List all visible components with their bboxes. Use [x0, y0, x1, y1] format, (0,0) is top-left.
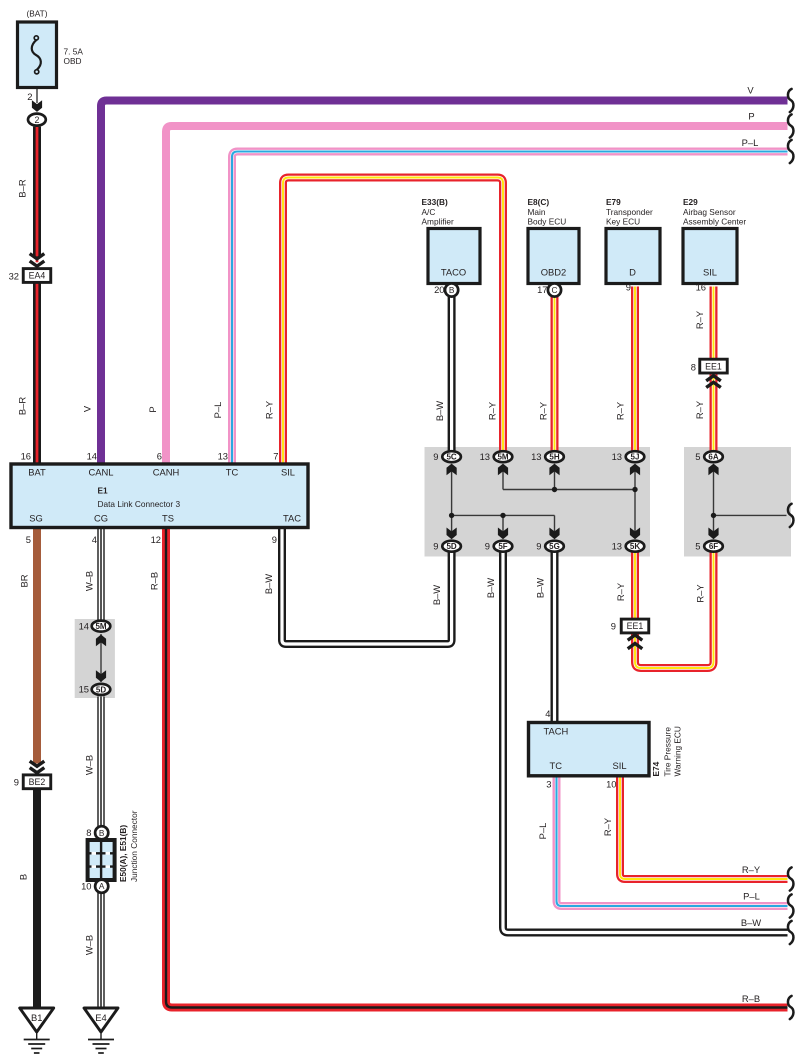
- svg-text:B: B: [449, 285, 455, 295]
- svg-text:R–B: R–B: [149, 572, 160, 590]
- junction internal wire 5J-5K: [634, 466, 636, 538]
- svg-text:EE1: EE1: [627, 621, 644, 631]
- arrow into 5M pair: [96, 635, 106, 647]
- svg-text:4: 4: [92, 534, 97, 545]
- oval 5H: [545, 451, 564, 462]
- svg-text:4: 4: [545, 708, 550, 719]
- wire P-L TC pin13 to right edge: [232, 152, 788, 465]
- svg-text:E4: E4: [95, 1012, 106, 1023]
- wire W-B 5D pair to junction connector: [97, 697, 104, 841]
- arrow into 5K: [630, 528, 640, 540]
- arrow into 5D pair: [96, 670, 106, 682]
- svg-text:V: V: [82, 405, 93, 412]
- svg-text:14: 14: [79, 621, 89, 632]
- svg-text:(BAT): (BAT): [26, 9, 47, 19]
- svg-text:R–B: R–B: [742, 993, 760, 1004]
- arrow double into EE1 lower: [628, 635, 643, 640]
- svg-text:7: 7: [273, 451, 278, 462]
- svg-text:8: 8: [691, 362, 696, 373]
- svg-text:P: P: [748, 111, 754, 122]
- svg-text:B1: B1: [31, 1012, 42, 1023]
- svg-text:A: A: [99, 881, 105, 891]
- ECU E79 Transponder Key ECU: [606, 197, 660, 284]
- svg-text:2: 2: [34, 115, 39, 125]
- arrow into 6A: [708, 464, 718, 476]
- svg-text:7. 5A: 7. 5A: [64, 47, 84, 57]
- oval 6F: [704, 541, 723, 552]
- svg-text:EA4: EA4: [29, 271, 46, 281]
- svg-text:Main: Main: [528, 207, 546, 217]
- svg-text:9: 9: [14, 777, 19, 788]
- wire P (pink) CANH pin6 to right edge: [166, 126, 788, 464]
- E8 pin C circle: [548, 283, 561, 296]
- wire B-W 5G to E74 pin4: [551, 546, 559, 723]
- svg-text:W–B: W–B: [84, 571, 95, 591]
- svg-text:5H: 5H: [549, 453, 559, 462]
- wire R-Y E74 SIL pin10 to right edge: [620, 776, 788, 879]
- svg-text:9: 9: [433, 541, 438, 552]
- svg-text:R–Y: R–Y: [694, 400, 705, 419]
- svg-text:32: 32: [9, 271, 19, 282]
- wire BR SG pin5 to BE2: [33, 528, 41, 764]
- svg-text:P–L: P–L: [742, 137, 759, 148]
- svg-text:CG: CG: [94, 513, 108, 524]
- break symbol P-L bottom: [788, 894, 793, 917]
- wire V (purple) CANL pin14 to right edge: [101, 101, 788, 465]
- junction internal wire 5C-5D: [451, 466, 453, 538]
- svg-text:3: 3: [546, 779, 551, 790]
- break symbol P-L top: [788, 140, 793, 163]
- svg-text:B–W: B–W: [535, 578, 546, 598]
- svg-text:13: 13: [218, 451, 228, 462]
- svg-text:13: 13: [531, 451, 541, 462]
- svg-text:9: 9: [433, 451, 438, 462]
- svg-text:R–Y: R–Y: [615, 401, 626, 420]
- wire B-W 5F to right edge: [503, 546, 788, 933]
- wire R-Y E79 pin9 to 5J: [631, 287, 639, 458]
- svg-text:EE1: EE1: [705, 361, 722, 371]
- arrow double into EA4: [30, 254, 45, 259]
- wire R-Y 5K to EE1: [631, 546, 639, 620]
- svg-text:R–Y: R–Y: [264, 400, 275, 419]
- junction connector pin A circle: [95, 880, 108, 893]
- connector EA4: [23, 269, 51, 283]
- svg-text:C: C: [552, 285, 558, 295]
- svg-text:B–W: B–W: [485, 578, 496, 598]
- svg-text:B–W: B–W: [741, 917, 761, 928]
- svg-text:Warning ECU: Warning ECU: [673, 726, 683, 776]
- svg-text:5D: 5D: [446, 542, 456, 551]
- svg-text:B: B: [18, 874, 29, 880]
- arrow into 5J: [630, 464, 640, 476]
- svg-text:R–Y: R–Y: [695, 584, 706, 603]
- wire B-R fuse to connector 2: [36, 88, 38, 104]
- ECU E1 Data Link Connector 3: [11, 464, 308, 528]
- wire W-B CG pin4 to 5M pair: [97, 528, 104, 621]
- node lower bus at 5F: [500, 513, 505, 518]
- svg-text:Body ECU: Body ECU: [528, 217, 567, 227]
- svg-text:SG: SG: [29, 513, 43, 524]
- svg-text:TACO: TACO: [441, 267, 466, 278]
- wire B-R EA4 to E1 BAT pin16: [33, 282, 41, 464]
- oval 5G: [545, 541, 564, 552]
- junction connector panel (5M/5D pair): [75, 619, 115, 698]
- oval 5F: [494, 541, 513, 552]
- oval 5M: [494, 451, 513, 462]
- svg-text:9: 9: [626, 282, 631, 293]
- svg-text:D: D: [629, 267, 636, 278]
- junction connector panel (5C-5K block): [425, 447, 651, 557]
- svg-text:10: 10: [81, 881, 91, 892]
- junction internal wire upper bus 5M-5H-5J: [502, 466, 504, 490]
- wire R-B TS pin12 to right edge: [166, 528, 788, 1008]
- arrow into 5G: [549, 528, 559, 540]
- svg-text:B–W: B–W: [434, 401, 445, 421]
- svg-text:SIL: SIL: [281, 467, 295, 478]
- connector EE1 lower: [621, 619, 649, 633]
- svg-text:6F: 6F: [709, 542, 718, 551]
- svg-text:5: 5: [695, 451, 700, 462]
- arrow into 5D: [447, 528, 457, 540]
- svg-text:5G: 5G: [549, 542, 560, 551]
- svg-text:A/C: A/C: [422, 207, 436, 217]
- junction internal wire 6A-6F: [713, 466, 715, 538]
- svg-text:SIL: SIL: [613, 760, 627, 771]
- junction internal wire 5M-5D pair: [100, 634, 102, 682]
- svg-text:TACH: TACH: [544, 726, 569, 737]
- svg-text:OBD2: OBD2: [541, 267, 567, 278]
- ECU E33(B) A/C Amplifier: [422, 197, 481, 284]
- break symbol P: [788, 114, 793, 137]
- oval 6A: [704, 451, 723, 462]
- arrow into 5C: [447, 464, 457, 476]
- svg-text:CANL: CANL: [88, 467, 113, 478]
- svg-text:Assembly Center: Assembly Center: [683, 217, 746, 227]
- svg-text:B–R: B–R: [17, 397, 28, 415]
- break symbol R-Y: [788, 867, 793, 890]
- svg-text:E29: E29: [683, 197, 698, 207]
- junction internal wire lower bus 5D-5F-5G: [452, 514, 555, 516]
- svg-text:5J: 5J: [631, 453, 640, 462]
- junction connector pin B circle: [95, 826, 108, 839]
- svg-text:12: 12: [151, 534, 161, 545]
- fuse 7.5A OBD: [18, 22, 57, 88]
- node upper bus at 5H: [552, 487, 557, 492]
- oval 5J: [626, 451, 645, 462]
- svg-text:5: 5: [26, 534, 31, 545]
- arrow into 5M: [498, 464, 508, 476]
- arrow into 5F: [498, 528, 508, 540]
- wire R-Y EE1 to 6F: [635, 546, 714, 668]
- connector EE1 upper: [700, 359, 728, 373]
- svg-text:E74: E74: [651, 761, 661, 776]
- arrow into 5H: [549, 464, 559, 476]
- wire B-W TAC pin9 to 5D: [282, 528, 452, 645]
- break symbol V: [788, 89, 793, 112]
- svg-text:E33(B): E33(B): [422, 197, 449, 207]
- arrow double into EE1 upper: [706, 376, 721, 381]
- svg-text:R–Y: R–Y: [487, 401, 498, 420]
- node upper bus at 5J: [632, 487, 637, 492]
- connector 2 oval: [28, 114, 46, 126]
- svg-text:BR: BR: [19, 574, 30, 587]
- svg-text:E1: E1: [98, 486, 109, 496]
- svg-text:CANH: CANH: [153, 467, 180, 478]
- svg-text:6A: 6A: [708, 453, 718, 462]
- svg-text:5: 5: [695, 541, 700, 552]
- svg-text:5D: 5D: [96, 685, 106, 694]
- ECU E8(C) Main Body ECU: [528, 197, 580, 284]
- svg-text:P–L: P–L: [537, 823, 548, 840]
- svg-text:R–Y: R–Y: [742, 864, 761, 875]
- svg-text:17: 17: [537, 284, 547, 295]
- ground B1: [20, 1008, 54, 1053]
- svg-text:13: 13: [612, 451, 622, 462]
- svg-text:9: 9: [485, 541, 490, 552]
- svg-text:Airbag Sensor: Airbag Sensor: [683, 207, 736, 217]
- svg-text:P–L: P–L: [212, 402, 223, 419]
- svg-text:16: 16: [696, 282, 706, 293]
- junction connector panel (6A/6F block): [684, 447, 791, 557]
- svg-text:Amplifier: Amplifier: [422, 217, 455, 227]
- svg-text:9: 9: [272, 534, 277, 545]
- svg-text:E8(C): E8(C): [528, 197, 550, 207]
- junction connector E50(A) E51(B): [88, 840, 115, 880]
- wire P-L E74 TC pin3 to right edge: [557, 776, 788, 906]
- svg-text:TC: TC: [226, 467, 239, 478]
- svg-text:13: 13: [612, 541, 622, 552]
- svg-text:P–L: P–L: [743, 891, 760, 902]
- svg-text:V: V: [747, 85, 754, 96]
- ECU E29 Airbag Sensor Assembly Center: [683, 197, 746, 284]
- svg-text:BAT: BAT: [28, 467, 46, 478]
- E33 pin B circle: [445, 283, 458, 296]
- svg-text:10: 10: [606, 779, 616, 790]
- wire B-W TACO pinB to 5C: [448, 297, 456, 457]
- svg-text:B: B: [99, 828, 105, 838]
- oval 5D pair: [92, 684, 111, 695]
- svg-text:Tire Pressure: Tire Pressure: [663, 727, 673, 777]
- svg-text:16: 16: [21, 451, 31, 462]
- svg-text:5M: 5M: [497, 453, 508, 462]
- break symbol junction bus right: [788, 504, 793, 527]
- wire B-R oval2 to EA4: [33, 127, 41, 257]
- node 6A-6F midpoint: [711, 513, 716, 518]
- svg-text:5F: 5F: [498, 542, 507, 551]
- connector BE2: [23, 775, 51, 789]
- svg-text:W–B: W–B: [84, 935, 95, 955]
- oval 5C: [442, 451, 461, 462]
- svg-text:8: 8: [86, 827, 91, 838]
- svg-text:2: 2: [27, 91, 32, 102]
- node lower bus at 5C-5D: [449, 513, 454, 518]
- svg-text:E79: E79: [606, 197, 621, 207]
- svg-text:OBD: OBD: [64, 56, 82, 66]
- svg-text:R–Y: R–Y: [694, 310, 705, 329]
- svg-text:SIL: SIL: [703, 267, 717, 278]
- svg-text:B–W: B–W: [431, 585, 442, 605]
- svg-text:R–Y: R–Y: [538, 401, 549, 420]
- svg-text:13: 13: [480, 451, 490, 462]
- oval 5D: [442, 541, 461, 552]
- wire R-Y SIL pin7 loop to junction 5M: [283, 178, 503, 465]
- svg-text:Junction Connector: Junction Connector: [129, 810, 139, 882]
- ECU E74 Tire Pressure Warning ECU: [529, 723, 650, 776]
- arrow double into BE2: [30, 761, 45, 766]
- svg-text:Key ECU: Key ECU: [606, 217, 640, 227]
- oval 5M pair: [92, 621, 111, 632]
- break symbol B-W: [788, 921, 793, 944]
- svg-text:P: P: [147, 406, 158, 412]
- svg-text:9: 9: [611, 621, 616, 632]
- svg-text:R–Y: R–Y: [615, 582, 626, 601]
- svg-text:9: 9: [536, 541, 541, 552]
- arrow into 6F: [708, 528, 718, 540]
- svg-text:E50(A), E51(B): E50(A), E51(B): [118, 825, 128, 882]
- wire B BE2 to ground B1: [33, 789, 41, 1008]
- svg-text:B–W: B–W: [263, 574, 274, 594]
- oval 5K: [626, 541, 645, 552]
- svg-text:Transponder: Transponder: [606, 207, 653, 217]
- arrow into connector 2: [32, 100, 42, 112]
- svg-text:TC: TC: [550, 760, 563, 771]
- wire W-B junction connector to ground E4: [97, 880, 104, 1008]
- break symbol R-B: [788, 996, 793, 1019]
- svg-text:TS: TS: [162, 513, 174, 524]
- svg-text:5C: 5C: [446, 453, 456, 462]
- svg-text:20: 20: [434, 284, 444, 295]
- wire R-Y OBD2 pinC to 5H: [551, 297, 559, 457]
- svg-text:W–B: W–B: [84, 755, 95, 775]
- ground E4: [84, 1008, 118, 1053]
- svg-text:6: 6: [157, 451, 162, 462]
- svg-text:BE2: BE2: [29, 777, 46, 787]
- junction internal wire 6A block to right break: [714, 514, 787, 516]
- svg-text:5K: 5K: [630, 542, 640, 551]
- svg-text:Data Link Connector 3: Data Link Connector 3: [98, 499, 181, 509]
- svg-text:R–Y: R–Y: [602, 817, 613, 836]
- svg-text:5M: 5M: [95, 622, 106, 631]
- svg-text:B–R: B–R: [17, 179, 28, 197]
- wire R-Y E29 pin16 to EE1 to 6A: [710, 287, 718, 458]
- svg-text:14: 14: [87, 451, 97, 462]
- svg-text:TAC: TAC: [283, 513, 301, 524]
- svg-text:15: 15: [79, 684, 89, 695]
